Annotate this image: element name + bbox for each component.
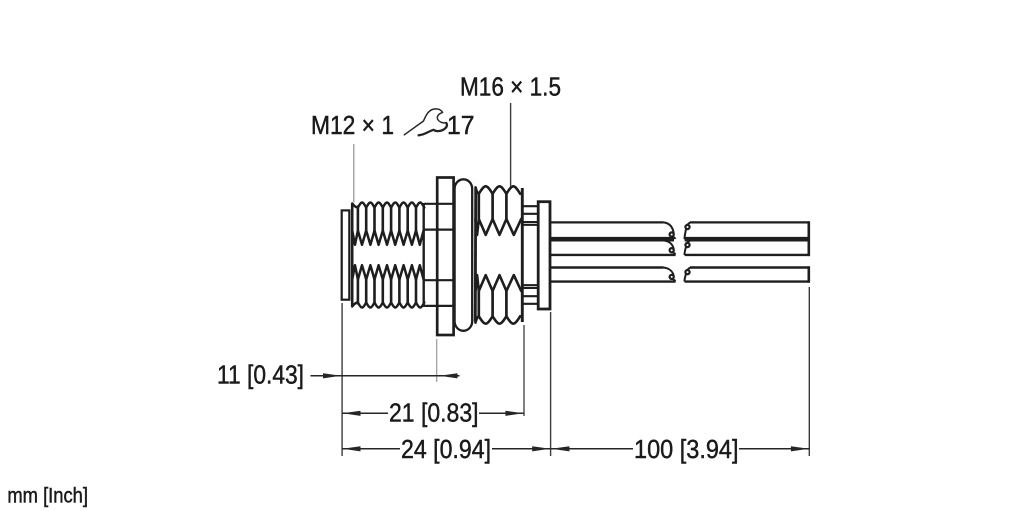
svg-text:100 [3.94]: 100 [3.94] bbox=[634, 434, 739, 464]
svg-text:24 [0.94]: 24 [0.94] bbox=[401, 434, 491, 464]
M12 thread lead-in edge bbox=[351, 204, 354, 307]
dimension line 11 bbox=[311, 375, 460, 377]
wire 2 left segment bbox=[551, 254, 676, 256]
wire 1 break right bbox=[684, 228, 686, 239]
extension line M16 end (21) bbox=[523, 325, 525, 416]
rear step lines (top) bbox=[522, 206, 538, 225]
dimension line 24 bbox=[342, 448, 550, 450]
wire 1 right segment bbox=[690, 221, 809, 223]
leader line M12 label bbox=[353, 144, 355, 203]
extension line body end (24/100) bbox=[550, 312, 552, 456]
wire 3 break right bbox=[684, 273, 686, 281]
sealing washer (capsule) bbox=[455, 179, 473, 330]
hex nut bbox=[437, 178, 453, 336]
wrench symbol (spanner size 17) bbox=[404, 109, 447, 135]
wire 3 right segment bbox=[690, 266, 809, 268]
shaft lines between M12 thread and hex nut bbox=[424, 204, 454, 306]
M12 thread top band bbox=[352, 203, 424, 208]
wire 2 break right bbox=[684, 246, 686, 255]
wire 3 break left bbox=[664, 268, 674, 276]
svg-text:21 [0.83]: 21 [0.83] bbox=[389, 398, 479, 428]
svg-text:mm [Inch]: mm [Inch] bbox=[7, 485, 88, 508]
wire 3 left segment bbox=[551, 266, 664, 268]
M16 thread bottom band bbox=[476, 316, 521, 324]
svg-text:17: 17 bbox=[447, 110, 475, 140]
wire right end caps bbox=[807, 221, 810, 283]
M16 thread top band bbox=[476, 186, 521, 194]
dimension line 100 bbox=[551, 448, 809, 450]
wire 1 left segment bbox=[551, 221, 664, 223]
extension line nut face (11) bbox=[436, 339, 438, 382]
M12 thread bottom band bbox=[352, 302, 424, 307]
rear body bbox=[538, 202, 550, 309]
dimension line 21 bbox=[342, 412, 524, 414]
extension line wire end (100) bbox=[808, 287, 810, 456]
extension line left face bbox=[341, 303, 343, 456]
leader line M16 label bbox=[510, 103, 512, 187]
wire 2 break left bbox=[664, 240, 674, 249]
M12 front rim plate bbox=[342, 210, 350, 299]
svg-text:11 [0.43]: 11 [0.43] bbox=[217, 360, 304, 390]
svg-text:M12 × 1: M12 × 1 bbox=[311, 110, 394, 140]
M12 thread run-out edge bbox=[423, 203, 425, 307]
M16 thread lead edge bbox=[474, 188, 477, 321]
svg-text:M16 × 1.5: M16 × 1.5 bbox=[460, 72, 561, 102]
wire 2 right segment bbox=[685, 254, 809, 256]
rear step lines (bottom) bbox=[522, 285, 538, 304]
M16 thread right edge bbox=[521, 188, 524, 322]
wire 1 break left bbox=[664, 222, 674, 233]
